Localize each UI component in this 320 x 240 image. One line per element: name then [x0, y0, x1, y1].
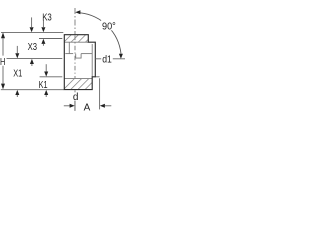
X3 upper arrow: [30, 27, 34, 32]
K1 lower arrow: [44, 90, 48, 95]
line A top reference: [1, 32, 63, 34]
A dimension right extension line: [99, 78, 101, 109]
line E K1 depth: [40, 76, 63, 78]
K3 lower arrow: [41, 39, 45, 44]
svg-text:X1: X1: [13, 68, 22, 79]
H dimension line upper: [2, 38, 4, 55]
label H: [0, 57, 6, 68]
socket bottom line right: [81, 53, 92, 55]
arc arrow lower: [119, 54, 123, 59]
svg-text:H: H: [0, 57, 5, 68]
hatch bottom band: [58, 77, 105, 95]
svg-text:X3: X3: [28, 42, 38, 53]
K3 lower arrow tail: [42, 44, 44, 46]
label d1: [101, 54, 113, 66]
H arrow up: [1, 32, 5, 38]
label X1: [12, 68, 23, 80]
bottom band top line: [64, 78, 92, 80]
label d: [72, 92, 79, 103]
centerline vertical axis: [74, 8, 76, 111]
A right arrow: [100, 104, 105, 108]
arc arrow upper: [75, 10, 80, 14]
svg-text:A: A: [84, 103, 91, 114]
X1 lower arrow tail: [16, 95, 18, 97]
label 90 degrees: [101, 20, 117, 32]
part inner left wall: [68, 42, 70, 53]
label K1: [38, 80, 49, 92]
X3 lower arrow: [30, 59, 34, 64]
X1 upper arrow tail: [16, 46, 18, 53]
K1 lower arrow tail: [45, 95, 47, 97]
K1 upper arrow: [44, 72, 48, 77]
A right arrow tail: [105, 105, 112, 107]
A left arrow: [70, 104, 75, 108]
svg-text:d: d: [73, 92, 79, 103]
line B K3 depth: [39, 38, 62, 40]
H arrow down: [1, 84, 5, 90]
svg-text:d1: d1: [102, 54, 112, 65]
H dimension line lower: [2, 66, 4, 84]
socket centre recess: [76, 54, 81, 59]
socket bottom line left: [65, 53, 73, 55]
d1 leader line: [95, 58, 125, 60]
X1 upper arrow: [15, 53, 19, 58]
K1 upper arrow tail: [45, 64, 47, 71]
baseline bottom reference: [1, 89, 64, 91]
A left arrow tail: [64, 105, 71, 107]
label X3: [27, 42, 38, 53]
svg-text:K3: K3: [42, 13, 52, 24]
line C axis reference: [7, 58, 63, 60]
X1 lower arrow: [15, 90, 19, 95]
X3 lower arrow tail: [31, 64, 33, 66]
part outline: [64, 35, 95, 90]
X3 upper arrow tail: [31, 17, 33, 27]
part inner right wall: [91, 44, 93, 77]
line E right stub: [95, 76, 99, 78]
part internal socket rim line: [64, 41, 88, 43]
90 degree arc: [80, 13, 121, 54]
hatch top band: [59, 33, 102, 47]
K3 upper arrow: [41, 27, 45, 32]
A dimension left extension line: [74, 100, 76, 111]
svg-text:K1: K1: [39, 80, 48, 91]
svg-text:90°: 90°: [102, 21, 116, 33]
K3 upper arrow tail: [42, 20, 44, 27]
